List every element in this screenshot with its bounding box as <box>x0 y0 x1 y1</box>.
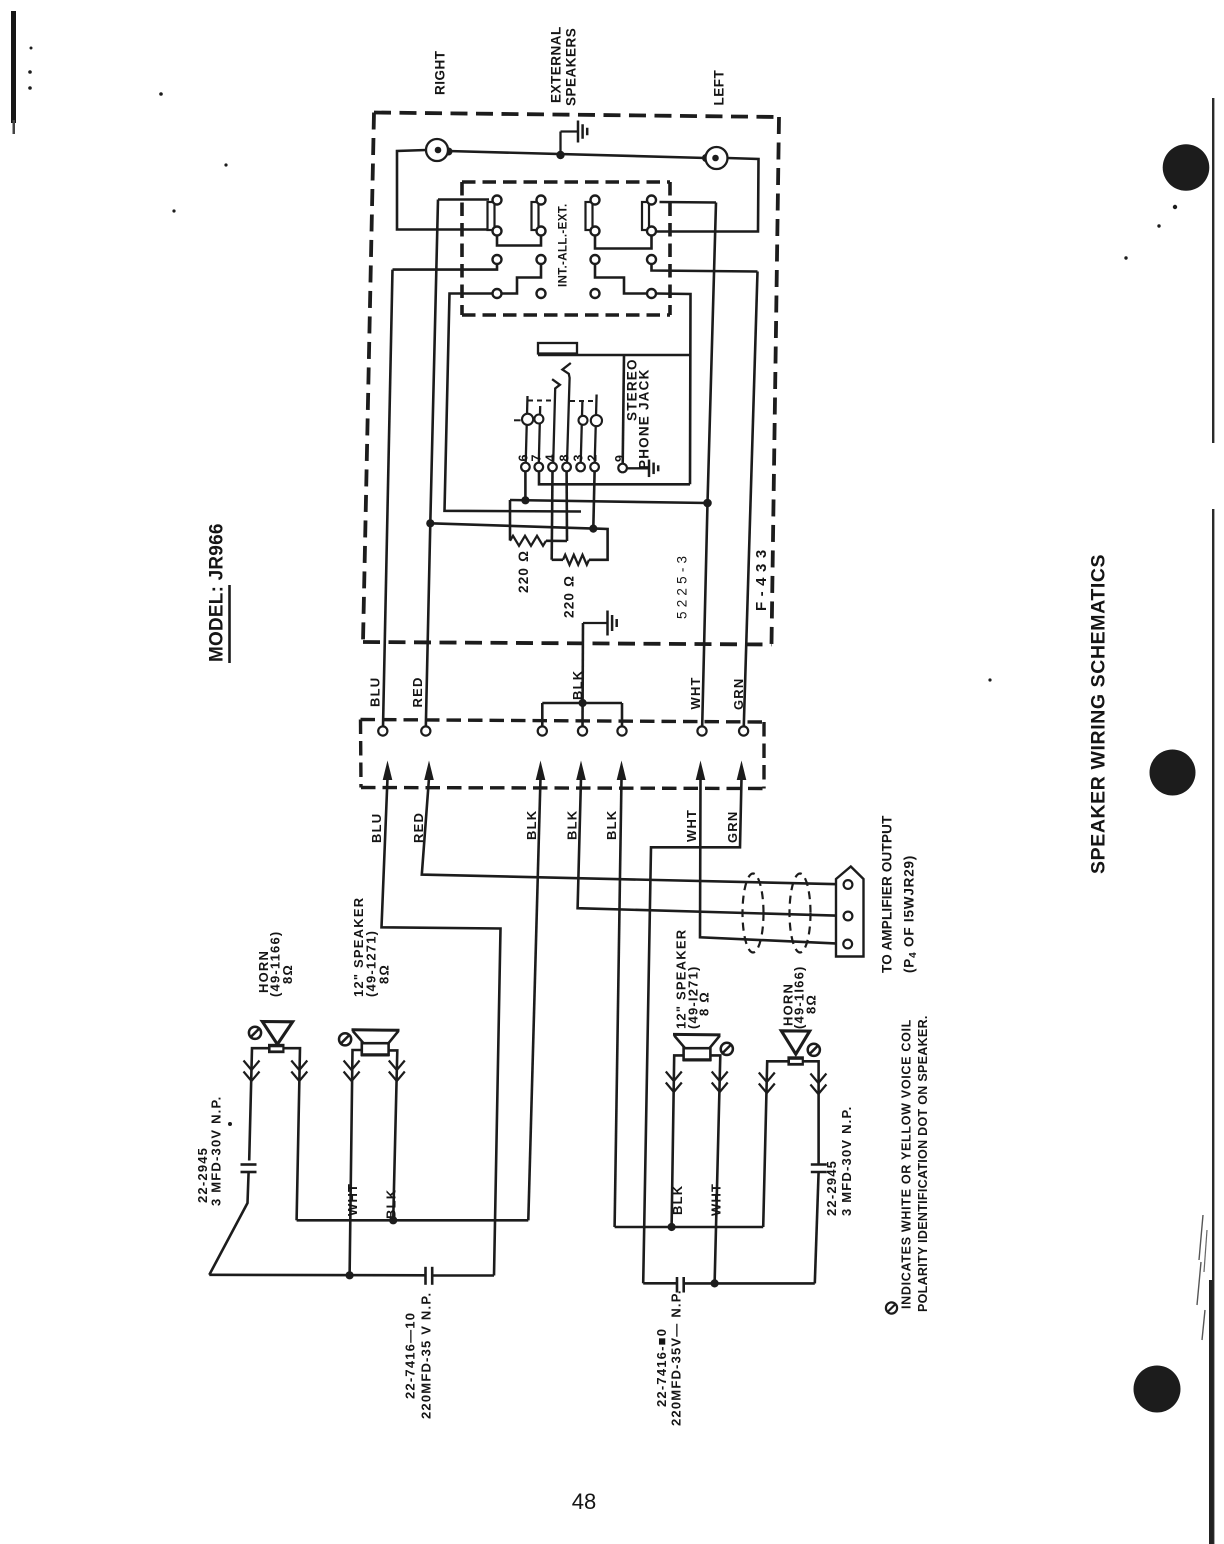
wire: link B1-B2 <box>497 236 541 246</box>
switch section 3 contact C3 <box>591 255 600 264</box>
svg-text:220MFD-35V— N.P.: 220MFD-35V— N.P. <box>669 1289 684 1426</box>
junction dot at ground tap <box>556 151 564 159</box>
amplifier connector P4 body <box>836 867 864 957</box>
wire: BLK bus right group <box>615 1226 764 1229</box>
arrow into connector <box>383 761 393 781</box>
svg-text:220 Ω: 220 Ω <box>561 575 576 618</box>
wire BLK2 lower to amplifier pin2 <box>578 778 844 916</box>
amplifier connector pin 2 <box>844 912 853 921</box>
connector terminal BLK 3 <box>617 726 626 735</box>
svg-text:BLU: BLU <box>368 677 383 707</box>
wire: jack body down to pin 9 <box>623 355 624 464</box>
BLK ground above connector <box>583 622 608 624</box>
svg-text:RED: RED <box>410 676 425 707</box>
capacitor 3MFD right <box>811 1163 827 1166</box>
svg-text:BLK: BLK <box>604 810 619 840</box>
wire BLK1 lower <box>528 778 540 1220</box>
wire WHT lower to amplifier pin3 <box>700 778 844 944</box>
junction dot at right jack <box>445 148 453 156</box>
switch section 4 contact C4 <box>647 255 656 264</box>
R1 right lead to pin8 <box>546 539 567 542</box>
svg-text:(49-1271): (49-1271) <box>364 930 379 997</box>
switch section 4 contact D4 <box>647 289 656 298</box>
svg-text:INT.-ALL.-EXT.: INT.-ALL.-EXT. <box>558 203 570 287</box>
outer dashed enclosure box F-433 <box>374 113 779 118</box>
svg-text:9: 9 <box>613 454 627 462</box>
svg-text:EXTERNAL: EXTERNAL <box>548 26 563 103</box>
switch section 3 contact B3 <box>591 227 600 236</box>
wire: link C2-D1 <box>502 264 542 294</box>
jack pin 8 <box>562 463 571 472</box>
switch section 3 contact A3 <box>591 196 600 205</box>
wire GRN: from C4 corner down to connector <box>744 272 758 726</box>
twisted pair marker 1 (dashed ellipse) <box>743 874 764 953</box>
switch section 2 contact A2 <box>537 196 546 205</box>
wire: A1 to left vertical <box>438 198 489 201</box>
polarity dot symbol speaker1 <box>339 1033 351 1045</box>
connector terminal WHT <box>697 726 706 735</box>
connector terminal BLK 1 <box>538 726 547 735</box>
tick left of rollers <box>514 419 521 421</box>
svg-text:22-2945: 22-2945 <box>824 1160 839 1216</box>
horn 2 symbol <box>781 1031 809 1054</box>
svg-text:GRN: GRN <box>731 678 746 711</box>
wire: C1 stem to left <box>393 264 498 270</box>
speaker 1 symbol <box>352 1028 400 1032</box>
continuation chevrons speaker1 <box>344 1061 360 1071</box>
svg-text:F-433: F-433 <box>753 544 770 611</box>
connector terminal BLK 2 <box>578 726 587 735</box>
wire: left jack right side down to switch B4 <box>657 158 759 232</box>
svg-text:(49-1166): (49-1166) <box>268 931 283 997</box>
svg-text:WHT: WHT <box>709 1183 724 1216</box>
speaker 2 leads <box>672 1055 684 1227</box>
jack pin 9 <box>618 464 627 473</box>
ground at pin 9 <box>627 467 649 469</box>
horn 1 leads <box>249 1048 268 1160</box>
wire BLU: C1 line down to connector <box>383 270 393 727</box>
amplifier connector pin 1 <box>844 880 853 889</box>
arrow into connector <box>696 761 706 781</box>
svg-text:48: 48 <box>572 1489 596 1514</box>
scan artifact: right edge line <box>1212 98 1214 443</box>
svg-text:8Ω: 8Ω <box>377 964 392 984</box>
svg-text:5225-3: 5225-3 <box>674 552 689 619</box>
jack pin 3 <box>576 463 585 472</box>
horn 2 leads <box>763 1061 788 1227</box>
punch hole top <box>1163 144 1210 191</box>
polarity dot symbol horn2 <box>808 1044 820 1056</box>
resistor R1 220 ohm <box>510 536 546 546</box>
switch section 2 contact D2 <box>537 289 546 298</box>
switch section 2 contact B2 <box>537 227 546 236</box>
svg-text:LEFT: LEFT <box>711 70 726 106</box>
svg-text:2: 2 <box>586 453 600 461</box>
capacitor 220MFD right <box>676 1277 679 1293</box>
svg-text:BLU: BLU <box>369 813 384 843</box>
svg-text:8: 8 <box>558 453 572 461</box>
wire RED: from A1 corner down through junctions to connector <box>426 200 438 728</box>
scan specks top-left <box>30 47 33 50</box>
jack body bottom line to right elbow <box>538 354 690 357</box>
switch section 1: contact bar <box>488 202 495 230</box>
roller contact on pin6 <box>522 414 533 425</box>
roller contact on pin3 <box>579 416 588 425</box>
scan specks near punch hole <box>1173 205 1177 209</box>
wire RED lower to amplifier pin1 <box>422 778 844 884</box>
svg-text:22-7416—10: 22-7416—10 <box>403 1312 418 1399</box>
svg-text:220MFD-35 V N.P.: 220MFD-35 V N.P. <box>419 1292 434 1419</box>
continuation chevrons horn1 <box>244 1061 260 1071</box>
arrow into connector <box>617 761 627 781</box>
wire: D1 left, down, to pin3 line <box>445 294 582 512</box>
svg-text:7: 7 <box>530 453 544 461</box>
speaker 2 symbol <box>673 1033 721 1037</box>
svg-text:PHONE JACK: PHONE JACK <box>636 368 651 469</box>
polarity dot symbol horn1 <box>249 1027 261 1039</box>
svg-text:4: 4 <box>543 453 557 461</box>
svg-text:WHT: WHT <box>688 676 703 709</box>
wire BLK3 lower <box>615 778 622 1227</box>
svg-text:WHT: WHT <box>684 809 699 842</box>
RIGHT external speaker jack <box>426 139 448 161</box>
svg-text:BLK: BLK <box>670 1185 685 1215</box>
jack pin 7 <box>535 463 544 472</box>
pin 7 riser <box>539 406 540 463</box>
svg-text:220 Ω: 220 Ω <box>516 550 531 593</box>
continuation chevrons speaker2 <box>666 1072 682 1082</box>
svg-text:BLK: BLK <box>565 810 580 840</box>
roller contact on pin7 <box>534 415 543 424</box>
LEFT external speaker jack <box>706 147 728 169</box>
twisted pair marker 2 (dashed ellipse) <box>790 874 811 953</box>
bottom node line right <box>643 1282 677 1285</box>
switch section 1 contact D1 <box>493 289 502 298</box>
svg-text:3 MFD-30V N.P.: 3 MFD-30V N.P. <box>209 1096 224 1206</box>
capacitor 220MFD left <box>424 1267 427 1285</box>
svg-text:TO AMPLIFIER OUTPUT: TO AMPLIFIER OUTPUT <box>879 815 894 973</box>
wire: link B3-B4 <box>595 236 652 249</box>
switch section 2 contact C2 <box>537 255 546 264</box>
switch section 3: contact bar <box>586 202 593 230</box>
svg-text:8 Ω: 8 Ω <box>697 991 712 1016</box>
svg-text:3 MFD-30V N.P.: 3 MFD-30V N.P. <box>839 1106 854 1216</box>
wire GRN lower <box>643 778 741 1283</box>
svg-text:6: 6 <box>516 453 530 461</box>
switch section 1 contact A1 <box>493 196 502 205</box>
speaker 1 leads <box>350 1050 362 1275</box>
pin4 wire down to R2 lead <box>550 471 553 560</box>
connector terminal BLU <box>378 726 387 735</box>
scan artifact: left edge black line <box>11 11 16 123</box>
wire: pin6 down to junction <box>524 471 527 500</box>
dashed link right <box>570 400 596 402</box>
arrow into connector <box>737 761 747 781</box>
pin 3 riser <box>581 402 583 464</box>
jack pin 2 <box>590 463 599 472</box>
node line pin6/A4 (y=500) <box>510 500 708 503</box>
wire: pin7 line (sleeve) <box>539 471 690 484</box>
svg-text:WHT: WHT <box>345 1183 360 1216</box>
connector terminal RED <box>421 726 430 735</box>
svg-text:RIGHT: RIGHT <box>432 50 447 95</box>
svg-text:8Ω: 8Ω <box>804 994 819 1014</box>
jack pin 4 <box>548 463 557 472</box>
pin2 wire down to junction <box>593 471 594 528</box>
switch section 1 contact C1 <box>493 255 502 264</box>
switch section 1 contact B1 <box>493 227 502 236</box>
punch hole bottom <box>1134 1366 1181 1413</box>
node line RED/pin2 <box>430 523 593 528</box>
arrow into connector <box>424 761 434 781</box>
pin8 wire down to R1 <box>565 471 568 541</box>
wire WHT: from A4 down to connector <box>702 203 716 726</box>
arrow into connector <box>536 761 546 781</box>
wire: A4 to right <box>660 201 717 204</box>
resistor R1 220ohm left lead <box>509 500 512 541</box>
svg-text:MODEL: JR966: MODEL: JR966 <box>206 523 227 662</box>
svg-text:GRN: GRN <box>725 811 740 844</box>
connector terminal GRN <box>739 726 748 735</box>
wire BLK center: ground down to junction <box>581 623 584 703</box>
stereo phone jack body bar <box>538 343 577 354</box>
resistor R2 220 ohm <box>563 555 589 565</box>
svg-text:BLK: BLK <box>524 810 539 840</box>
junction dot at left jack <box>702 154 710 162</box>
amplifier connector pin 3 <box>843 940 852 949</box>
jack spring contact (large) <box>562 363 570 463</box>
wire: right jack left side down to switch B1 <box>397 150 489 230</box>
horn 1 symbol <box>262 1022 292 1045</box>
jack pin 6 <box>521 463 530 472</box>
polarity dot symbol speaker2 <box>721 1043 733 1055</box>
svg-text:8Ω: 8Ω <box>280 964 295 984</box>
note polarity symbol <box>886 1302 897 1313</box>
bottom node line left <box>209 1274 425 1277</box>
svg-text:22-7416-■0: 22-7416-■0 <box>654 1328 669 1407</box>
inner dashed box INT-ALL-EXT <box>462 180 670 184</box>
punch hole middle <box>1150 750 1196 796</box>
svg-text:BLK: BLK <box>384 1189 399 1219</box>
wire: right jack to left jack (common bus) <box>448 151 706 158</box>
dashed link left <box>528 400 555 402</box>
wire: link C3-D4 <box>595 264 647 294</box>
continuation chevrons horn2 <box>759 1073 775 1083</box>
wire: BLK bus left group <box>297 1219 529 1222</box>
svg-text:SPEAKER WIRING SCHEMATICS: SPEAKER WIRING SCHEMATICS <box>1088 554 1110 874</box>
arrow into connector <box>576 761 586 781</box>
wire: D4 right, down to pin7 line elbow <box>656 294 691 485</box>
capacitor 3MFD left <box>241 1163 257 1166</box>
svg-text:3: 3 <box>572 453 586 461</box>
roller contact on pin2 <box>591 415 602 426</box>
pin 6 riser <box>526 396 528 463</box>
svg-text:POLARITY IDENTIFICATION DOT ON: POLARITY IDENTIFICATION DOT ON SPEAKER. <box>916 1015 930 1312</box>
cap lead diagonal <box>209 1172 248 1275</box>
switch section 2: contact bar <box>532 202 539 230</box>
switch section 4 contact A4 <box>647 196 656 205</box>
connector strip dashed box <box>361 720 765 723</box>
R2 leads <box>552 558 563 561</box>
jack spring contact (small) <box>552 379 560 463</box>
pin 2 riser <box>595 395 597 464</box>
underline for MODEL: <box>228 585 231 663</box>
switch section 4: contact bar <box>642 202 649 230</box>
BLK 3-way junction <box>542 702 622 705</box>
svg-text:INDICATES WHITE OR YELLOW VOIC: INDICATES WHITE OR YELLOW VOICE COIL <box>900 1019 914 1309</box>
switch section 4 contact B4 <box>647 227 656 236</box>
wire: C4 stem to right (to GRN) <box>652 264 758 272</box>
ground symbol at top <box>559 132 561 156</box>
switch section 3 contact D3 <box>591 289 600 298</box>
scratch marks bottom right <box>1197 1215 1205 1340</box>
svg-text:BLK: BLK <box>570 670 585 700</box>
wire BLU lower <box>382 778 501 1276</box>
svg-text:SPEAKERS: SPEAKERS <box>563 28 578 106</box>
